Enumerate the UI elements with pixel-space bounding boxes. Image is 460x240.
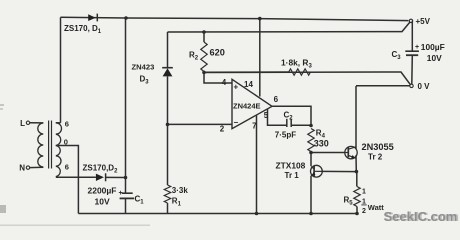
svg-text:ZS170,D2: ZS170,D2 [83, 163, 119, 174]
resistor R5 1 ohm [354, 187, 360, 207]
svg-text:R1: R1 [172, 196, 182, 207]
wire secondary top tap [56, 122, 61, 124]
junction rail2 / R2 [202, 30, 206, 34]
wire op-amp output [272, 106, 311, 125]
terminal +5V [409, 19, 412, 22]
svg-text:2: 2 [362, 208, 366, 215]
svg-text:100µF: 100µF [421, 42, 445, 52]
wire Tr2 collector up [355, 86, 357, 149]
capacitor C1 2200uF [125, 178, 127, 194]
svg-text:L: L [20, 119, 25, 128]
svg-text:N: N [19, 164, 25, 173]
svg-text:2200µF: 2200µF [88, 186, 117, 196]
svg-text:Tr 2: Tr 2 [368, 152, 383, 161]
svg-text:ZN423: ZN423 [132, 63, 155, 72]
wire bottom rail [78, 213, 357, 215]
svg-text:6: 6 [65, 119, 69, 128]
svg-text:Watt: Watt [368, 203, 384, 212]
capacitor C2 7.5pF [286, 119, 288, 127]
wire D2 cathode to junction [106, 176, 126, 178]
wire Tr2 emitter down [355, 155, 357, 171]
scan smudge bottom left [0, 205, 6, 213]
svg-text:1: 1 [362, 188, 366, 195]
capacitor C3 100uF [411, 21, 413, 52]
svg-text:ZTX108: ZTX108 [276, 161, 306, 171]
wire pin4 input [204, 73, 232, 84]
svg-text:1: 1 [362, 198, 366, 205]
svg-text:C3: C3 [392, 50, 402, 61]
svg-text:SeekIC.com: SeekIC.com [385, 209, 459, 224]
svg-text:+5V: +5V [416, 17, 431, 26]
wire pin7 to bottom rail [256, 115, 258, 214]
wire 0-tap down [56, 146, 79, 214]
wire C2 right to output node [291, 124, 311, 126]
junction D2 / rectifier line [124, 176, 128, 180]
diode D2 [96, 174, 104, 181]
transistor Q1 ZTX108 Tr1 [311, 165, 323, 177]
svg-text:−: − [233, 118, 238, 127]
op-amp U1 ZN424E [232, 79, 272, 128]
wire R5 bottom [356, 207, 358, 214]
svg-text:Tr 1: Tr 1 [285, 171, 300, 180]
junction D3 line / pin2 [166, 123, 170, 127]
terminal 0V [410, 84, 413, 87]
svg-text:5: 5 [264, 111, 269, 120]
svg-text:10V: 10V [95, 196, 110, 206]
svg-text:620: 620 [210, 48, 225, 58]
wire pin2 input [168, 123, 233, 125]
resistor R2 620 [203, 32, 205, 42]
svg-text:ZS170, D1: ZS170, D1 [64, 24, 102, 35]
wire D2 anode from transformer [56, 176, 96, 178]
svg-text:0 V: 0 V [418, 82, 431, 91]
junction R5 / bottom rail [355, 212, 359, 216]
wire main rectified line vertical [125, 18, 127, 178]
svg-text:C2: C2 [284, 110, 294, 121]
transformer core [48, 121, 50, 169]
svg-text:6: 6 [65, 163, 69, 172]
resistor R4 330 [308, 129, 314, 152]
junction pin7 / bottom rail [255, 212, 259, 216]
wire R5 top [356, 172, 358, 187]
svg-text:1·8k, R3: 1·8k, R3 [281, 58, 312, 70]
svg-text:R2: R2 [189, 51, 199, 62]
wire top +5V rail [61, 17, 409, 20]
transistor Q2 2N3055 Tr2 [345, 146, 357, 158]
junction Tr2 emitter / Tr1 base / R5 [355, 170, 359, 174]
wire R3 rail to 0V [204, 72, 411, 85]
junction top rail / rectifier line [124, 16, 128, 20]
resistor R1 3.3k [167, 124, 169, 185]
svg-text:10V: 10V [427, 53, 442, 63]
wire 0V to Tr2 collector [356, 85, 410, 87]
svg-text:C1: C1 [135, 194, 145, 205]
junction R4 / Tr2 base / Tr1 collector [309, 151, 313, 155]
wire pin14 to +5V [259, 19, 261, 97]
wire Tr1 emitter to bottom rail [310, 176, 312, 214]
zener D3 [167, 32, 169, 68]
svg-text:0: 0 [64, 137, 68, 146]
junction Tr1 emitter / bottom rail [309, 212, 313, 216]
svg-text:3·3k: 3·3k [172, 186, 189, 195]
junction R2 / R3 / pin4 [202, 71, 206, 75]
terminal L [26, 121, 29, 124]
wire second +5V rail (zener/R2 rail) [168, 22, 411, 32]
svg-text:+: + [415, 44, 419, 51]
svg-text:330: 330 [314, 138, 329, 148]
wire left vertical from top rail to transformer [60, 17, 62, 123]
transformer secondary winding [56, 123, 62, 177]
wire pin5 stub to C2 [268, 109, 287, 125]
wire R4 to Tr2 base [311, 152, 345, 154]
wire Tr1 collector [310, 153, 312, 167]
wire Tr2 emitter node to Tr1 base [322, 170, 356, 172]
svg-text:14: 14 [244, 80, 253, 89]
svg-text:2N3055: 2N3055 [362, 142, 394, 152]
svg-text:2: 2 [220, 124, 225, 133]
junction output / C2 / R4 [309, 124, 313, 128]
svg-text:6: 6 [274, 95, 279, 104]
svg-text:+: + [233, 82, 238, 91]
svg-text:R5: R5 [344, 195, 354, 206]
svg-text:7·5pF: 7·5pF [275, 131, 296, 140]
svg-text:+: + [119, 190, 123, 197]
transformer primary winding [38, 123, 44, 167]
diode D1 [88, 14, 96, 21]
junction top rail / pin14 [258, 17, 262, 21]
svg-text:D3: D3 [140, 75, 150, 86]
resistor R3 1.8k [204, 71, 289, 73]
terminal N [26, 166, 29, 169]
svg-text:4: 4 [222, 78, 227, 87]
svg-text:ZN424E: ZN424E [233, 101, 261, 110]
svg-text:7: 7 [252, 121, 257, 130]
